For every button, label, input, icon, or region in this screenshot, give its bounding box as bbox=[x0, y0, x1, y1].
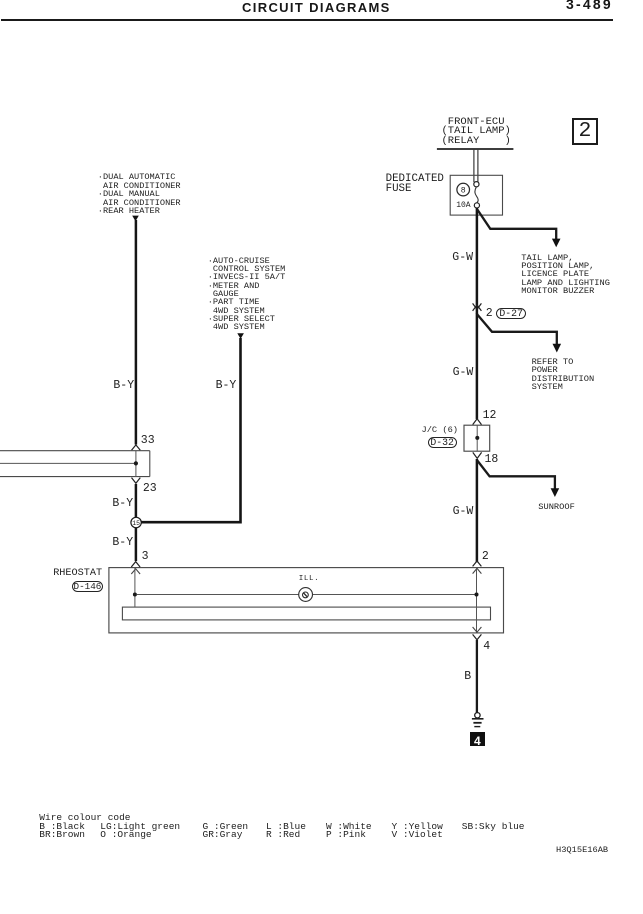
fuse terminal top bbox=[474, 182, 479, 187]
connector designator D-32 bbox=[428, 437, 457, 448]
connector designator D-146 bbox=[72, 581, 104, 592]
arrow to tail lamp loads bbox=[552, 239, 561, 248]
component label DEDICATED FUSE bbox=[386, 175, 444, 193]
wire double-line from relay to fuse bbox=[474, 150, 478, 182]
rheostat body box bbox=[109, 568, 504, 633]
pin 3 chevron outer bbox=[131, 562, 140, 567]
wire 4WD list to junction 15 bbox=[141, 338, 240, 522]
rheostat internal wire left bbox=[134, 568, 136, 608]
lamp label ILL. bbox=[299, 576, 319, 582]
pin 2 label at connector D-27 bbox=[486, 309, 493, 319]
pin 2 chevron outer bbox=[473, 561, 482, 566]
legend column 5 bbox=[326, 823, 372, 840]
pin 12 chevron bbox=[473, 419, 482, 425]
pin 2 label at rheostat bbox=[482, 552, 489, 562]
legend title Wire colour code bbox=[39, 814, 130, 822]
node list: auto-cruise control etc. bbox=[208, 257, 286, 332]
left connector middle wire bbox=[0, 462, 135, 464]
fuse value label 10A bbox=[456, 202, 470, 209]
connector D-27 inline symbol bbox=[473, 303, 482, 311]
pin 18 chevron bbox=[473, 452, 482, 458]
legend column 3 bbox=[203, 823, 249, 840]
pin 18 label at J/C bbox=[485, 455, 499, 465]
pin 33 label at left connector bbox=[141, 436, 155, 446]
ground symbol bbox=[472, 719, 484, 727]
left connector box (off-page component) bbox=[0, 451, 150, 477]
pin 12 label at J/C bbox=[483, 411, 497, 421]
node bus line under FRONT-ECU relay label bbox=[437, 148, 514, 150]
wire label B-Y (above junction 15) bbox=[112, 499, 133, 509]
legend column 1 bbox=[39, 823, 85, 840]
node FRONT-ECU (TAIL LAMP RELAY) label bbox=[442, 118, 511, 147]
legend column 4 bbox=[266, 823, 306, 840]
rheostat internal wire right bbox=[476, 568, 478, 633]
junction dot at left connector bbox=[134, 461, 138, 465]
component label RHEOSTAT bbox=[53, 569, 102, 579]
pin 23 chevron bbox=[132, 478, 141, 484]
svg-text:8: 8 bbox=[461, 187, 466, 196]
arrow to sunroof bbox=[551, 488, 560, 497]
net label REFER TO POWER DISTRIBUTION SYSTEM bbox=[532, 358, 595, 391]
arrow from A/C node list bbox=[132, 216, 139, 222]
net label TAIL LAMP block bbox=[521, 254, 610, 295]
legend column 6 bbox=[392, 823, 443, 840]
wire branch to power distribution bbox=[477, 315, 557, 345]
arrow from 4WD node list bbox=[237, 333, 244, 339]
legend column 2 bbox=[100, 823, 180, 840]
wire rheostat to ground bbox=[476, 640, 478, 713]
wire fuse to connector D-27 bbox=[476, 208, 479, 314]
wire branch to tail lamp loads bbox=[477, 210, 556, 240]
net label SUNROOF bbox=[538, 503, 575, 511]
fuse box (dedicated fuse) bbox=[450, 175, 502, 215]
lamp ILL bbox=[299, 588, 313, 602]
wire label B-Y (middle wire) bbox=[216, 381, 237, 391]
junction dot left bbox=[133, 593, 137, 597]
junction circle 15 bbox=[131, 517, 141, 527]
junction dot right bbox=[475, 593, 479, 597]
J/C junction dot bbox=[475, 436, 479, 440]
wire pin 23 to junction 15 bbox=[135, 484, 138, 517]
wire label G-W (fuse to D-27) bbox=[452, 253, 473, 263]
wire A/C list to connector pin 33 bbox=[135, 220, 138, 445]
wire D-27 to J/C bbox=[476, 313, 479, 419]
ground terminal circle bbox=[475, 713, 480, 718]
header title bbox=[242, 1, 391, 14]
pin 3 label at rheostat bbox=[142, 552, 149, 562]
pin 4 chevron outer bbox=[473, 634, 482, 639]
fuse terminal bottom bbox=[474, 203, 479, 208]
node list: dual automatic air conditioner etc. bbox=[98, 173, 181, 215]
wire label G-W (J/C to rheostat) bbox=[453, 507, 474, 517]
sheet reference box 4 (filled) bbox=[470, 732, 485, 747]
fuse element F (10A) bbox=[475, 187, 478, 203]
wire J/C to rheostat bbox=[476, 459, 479, 562]
component label J/C(6) bbox=[422, 426, 459, 434]
pin 33 chevron bbox=[132, 445, 141, 450]
legend column 7 bbox=[462, 823, 525, 831]
wire junction 15 to rheostat pin 3 bbox=[135, 528, 138, 561]
J/C internal wire bbox=[476, 425, 478, 451]
header rule bbox=[1, 19, 613, 21]
left connector internal wire bbox=[135, 451, 137, 477]
wire label B (rheostat to ground) bbox=[464, 672, 471, 682]
pin 2 chevron inner bbox=[473, 568, 482, 573]
junction connector J/C(6) box bbox=[464, 425, 490, 451]
arrow to power distribution bbox=[553, 344, 562, 353]
pin 4 chevron inner bbox=[473, 627, 482, 632]
wire label G-W (D-27 to J/C) bbox=[453, 368, 474, 378]
header page number 3-489 bbox=[566, 0, 613, 11]
sheet reference box 2 bbox=[572, 118, 599, 145]
pin 23 label at left connector bbox=[143, 484, 157, 494]
drawing number H3Q15E16AB bbox=[556, 846, 608, 854]
wire branch to sunroof bbox=[477, 461, 555, 489]
fuse number circle 8 bbox=[457, 183, 470, 196]
connector designator D-27 bbox=[496, 308, 526, 319]
pin 3 chevron inner bbox=[131, 569, 140, 574]
wire label B-Y (below junction 15) bbox=[112, 538, 133, 548]
wire label B-Y (left wire) bbox=[113, 381, 134, 391]
rheostat internal wire horizontal bbox=[137, 594, 475, 596]
pin 4 label at rheostat bbox=[483, 642, 490, 652]
svg-text:15: 15 bbox=[132, 520, 140, 527]
resistor element bar bbox=[122, 607, 490, 620]
